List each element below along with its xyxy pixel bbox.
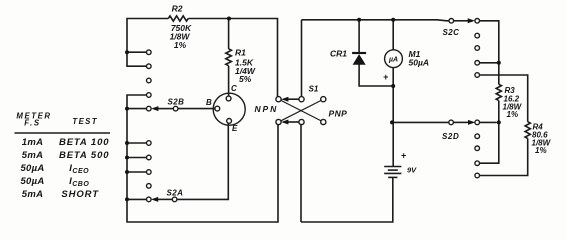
svg-text:50µA: 50µA [20, 176, 44, 187]
svg-text:R2: R2 [172, 4, 183, 14]
svg-text:SHORT: SHORT [61, 189, 99, 200]
svg-text:S1: S1 [309, 85, 319, 94]
svg-text:5%: 5% [239, 74, 252, 84]
svg-text:R1: R1 [235, 48, 246, 58]
svg-text:9V: 9V [407, 166, 417, 175]
svg-text:50µA: 50µA [409, 58, 430, 68]
svg-text:1%: 1% [507, 110, 519, 119]
svg-text:F.S: F.S [24, 119, 41, 128]
svg-text:+: + [401, 151, 407, 161]
svg-text:µA: µA [388, 56, 398, 63]
svg-text:C: C [231, 84, 237, 93]
svg-text:S2D: S2D [442, 132, 459, 141]
svg-text:ICBO: ICBO [69, 176, 89, 188]
svg-text:1%: 1% [535, 146, 547, 155]
svg-text:B: B [206, 98, 212, 107]
svg-text:CR1: CR1 [330, 49, 347, 59]
svg-text:E: E [232, 124, 238, 133]
svg-text:50µA: 50µA [20, 163, 44, 174]
svg-text:1mA: 1mA [22, 137, 44, 148]
svg-text:BETA 500: BETA 500 [59, 150, 110, 161]
svg-text:5mA: 5mA [22, 150, 44, 161]
svg-text:S2C: S2C [443, 28, 460, 37]
svg-text:+: + [383, 72, 389, 82]
svg-text:5mA: 5mA [22, 189, 44, 200]
svg-text:TEST: TEST [72, 117, 98, 126]
svg-text:S2B: S2B [168, 97, 185, 106]
svg-text:1%: 1% [174, 40, 187, 50]
svg-text:S2A: S2A [167, 189, 184, 198]
svg-text:NPN: NPN [255, 104, 279, 114]
svg-text:ICEO: ICEO [69, 163, 89, 175]
svg-text:BETA 100: BETA 100 [59, 137, 110, 148]
svg-text:PNP: PNP [329, 109, 348, 119]
